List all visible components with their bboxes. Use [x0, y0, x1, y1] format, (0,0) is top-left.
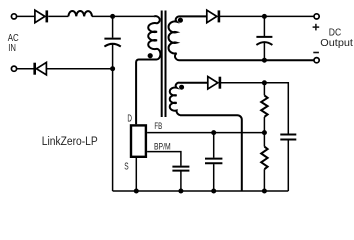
capacitor C5 right — [280, 135, 296, 140]
junction FB divider mid — [262, 130, 267, 135]
DC output terminal minus — [314, 58, 319, 63]
svg-text:Output: Output — [320, 38, 353, 49]
svg-text:FB: FB — [154, 121, 162, 132]
wire: C2 bottom lead — [263, 42, 265, 60]
resistor R2 — [261, 147, 267, 170]
junction node A — [110, 14, 115, 19]
wire: bias diode D4 to right cap C5 corner — [221, 83, 288, 134]
junction rail C3 — [178, 189, 183, 194]
transformer bias winding — [170, 83, 242, 191]
wire: C4 top lead — [213, 133, 215, 158]
wire: C3 to rail — [180, 172, 182, 192]
wire: D1 to inductor L1 — [48, 15, 68, 17]
junction rail C4 — [211, 189, 216, 194]
wire: bottom rail — [113, 190, 289, 192]
wire: D2 to node B — [47, 68, 113, 70]
wire: C1 bottom to bottom rail — [112, 44, 114, 192]
resistor R1 — [261, 95, 267, 116]
wire: R2 bottom lead — [263, 169, 265, 191]
capacitor C4 FB — [205, 159, 222, 164]
svg-text:DC: DC — [329, 27, 342, 38]
inductor L1 — [68, 11, 92, 16]
junction C4 top — [211, 130, 216, 135]
transformer T1 primary winding — [136, 16, 160, 124]
AC input terminal bottom — [11, 66, 16, 71]
AC input terminal top — [11, 14, 16, 19]
diode D2 — [35, 62, 47, 75]
svg-text:S: S — [124, 160, 129, 172]
transformer core — [162, 11, 166, 118]
plus sign — [313, 24, 320, 31]
wire: FB pin to resistor divider — [147, 132, 264, 134]
wire: R1 bottom lead — [263, 117, 265, 133]
transformer bias polarity dot — [179, 85, 184, 90]
junction rail S — [134, 189, 139, 194]
junction rail R2 — [262, 189, 267, 194]
capacitor C3 BP/M — [172, 167, 189, 171]
wire: left vertical node A to C1 — [112, 16, 114, 37]
junction bias node R1 top — [262, 80, 267, 85]
junction output node — [262, 14, 267, 19]
wire: C5 bottom lead — [287, 140, 289, 191]
svg-text:LinkZero-LP: LinkZero-LP — [42, 135, 98, 148]
svg-text:BP/M: BP/M — [154, 142, 171, 152]
diode D1 — [35, 10, 47, 23]
wire: bottom terminal to diode D2 — [17, 68, 34, 70]
wire: C2 top lead — [263, 16, 265, 36]
DC output terminal plus — [314, 14, 319, 19]
junction output return — [262, 58, 267, 63]
svg-text:D: D — [127, 112, 132, 124]
transformer secondary winding — [169, 16, 314, 60]
wire: BP/M pin wire and drop to C3 — [147, 152, 181, 166]
svg-text:IN: IN — [8, 42, 16, 53]
wire: C4 bottom lead — [213, 164, 215, 191]
wire: output diode D3 to + terminal — [220, 15, 314, 17]
wire: top terminal to diode D1 — [17, 15, 35, 17]
wire: R2 top lead — [263, 133, 265, 147]
wire: R1 top lead — [263, 83, 265, 96]
diode D3 — [207, 10, 219, 23]
diode D4 — [208, 77, 220, 90]
transformer primary polarity dot — [148, 53, 153, 58]
capacitor C1 input — [104, 39, 120, 47]
transformer secondary polarity dot — [178, 18, 183, 23]
minus sign — [313, 52, 319, 54]
IC U1 LinkZero-LP — [131, 125, 146, 156]
wire: IC source pin to rail — [135, 158, 137, 191]
junction node B — [110, 66, 115, 71]
capacitor C2 output — [256, 37, 272, 45]
wire: inductor to node A and transformer primary — [92, 15, 154, 17]
